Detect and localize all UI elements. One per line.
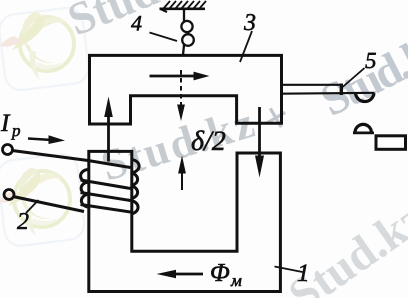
current arrow Ip — [28, 139, 52, 141]
flux arrow up in left leg — [107, 112, 110, 162]
label 4 — [131, 16, 141, 31]
coil turn 4 — [81, 205, 131, 213]
flux arrow right in armature — [150, 75, 197, 78]
leader 3 — [240, 31, 252, 62]
coil right loop 1 — [131, 160, 140, 173]
leader 5 — [342, 68, 365, 88]
wire from terminal Ip, coil turn 1 — [12, 151, 131, 168]
leader 1 — [275, 267, 303, 273]
core 1 (fixed magnetic yoke) — [89, 151, 281, 291]
coil right loop 4 — [131, 201, 139, 215]
watermark logo top-left — [0, 6, 90, 92]
watermark text "Stud.kz" bottom-right — [286, 199, 408, 298]
label 5 — [365, 53, 375, 68]
watermark text "Stud.kz" upper right — [319, 28, 408, 116]
watermark logo mid-left — [0, 152, 86, 247]
watermark text "Stud.kz" top-left — [66, 0, 214, 36]
wire from terminal 2 — [13, 197, 84, 212]
armature 3 (movable core piece) — [90, 55, 282, 124]
terminal 2 — [4, 190, 14, 200]
dome contact right — [355, 124, 371, 132]
coil left loop 2 — [81, 182, 87, 195]
spring 4 (restoring spring) — [181, 9, 193, 55]
dome base line — [353, 131, 374, 134]
leader 2 — [26, 200, 39, 213]
coil left loop 1 — [81, 170, 88, 183]
flux arrow down in right leg — [258, 107, 261, 161]
coil right loop 2 — [131, 173, 138, 186]
coil 2 winding on left leg — [12, 151, 139, 215]
flux arrow left in yoke bottom — [173, 273, 203, 276]
rectangle block bottom-right — [376, 136, 406, 150]
air gap dimension arrow down (delta/2) — [180, 70, 182, 106]
leader 4 — [150, 33, 178, 42]
coil turn 2 — [81, 180, 131, 189]
label 2 — [17, 213, 29, 229]
fixed support baseline — [160, 8, 206, 11]
value label delta/2 — [192, 130, 225, 150]
coil left loop 3 — [81, 194, 87, 207]
watermark text "Stud.kz" diagonal middle — [100, 106, 256, 181]
coil right loop 3 — [131, 186, 138, 199]
pointer 5 (indicator bar) — [281, 84, 375, 102]
label 1 — [298, 265, 307, 282]
label Phi M (flux) — [211, 264, 229, 281]
fixed support end tick — [160, 9, 167, 12]
air gap dimension arrow up (delta/2) — [181, 172, 183, 190]
label Ip — [1, 115, 10, 131]
watermark text "+" right of armature — [261, 103, 291, 133]
terminal Ip — [3, 145, 13, 155]
label 3 — [244, 14, 255, 30]
pointer 5 pivot bowl — [356, 93, 375, 101]
coil turn 3 — [81, 193, 131, 201]
fixed support hatching — [163, 1, 206, 9]
